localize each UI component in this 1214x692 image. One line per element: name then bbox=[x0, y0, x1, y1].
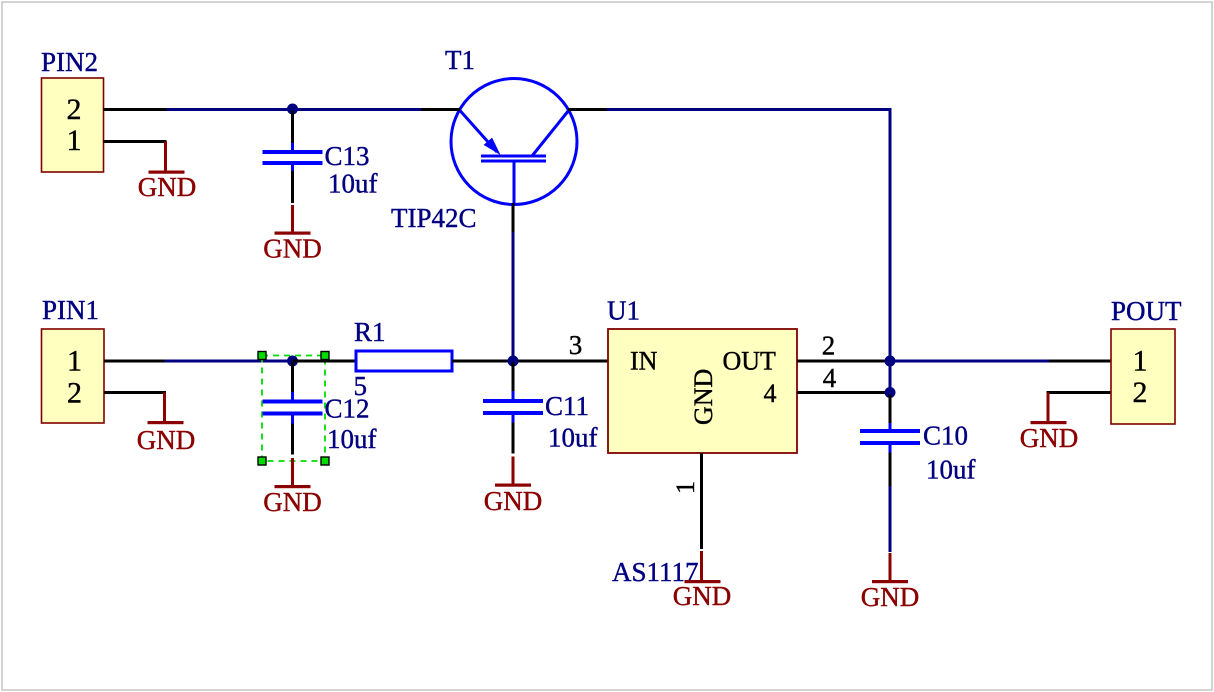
svg-text:2: 2 bbox=[67, 377, 82, 410]
connector POUT bbox=[1111, 296, 1182, 424]
svg-text:GND: GND bbox=[689, 369, 718, 425]
svg-text:2: 2 bbox=[67, 93, 82, 126]
svg-text:4: 4 bbox=[823, 363, 837, 393]
wire: C10 bottom pin black bbox=[889, 453, 892, 487]
svg-text:GND: GND bbox=[263, 487, 322, 517]
svg-text:PIN1: PIN1 bbox=[42, 295, 99, 325]
svg-text:C11: C11 bbox=[545, 391, 589, 421]
svg-text:T1: T1 bbox=[445, 45, 475, 75]
svg-text:PIN2: PIN2 bbox=[41, 47, 98, 77]
svg-text:10uf: 10uf bbox=[328, 169, 378, 199]
svg-text:4: 4 bbox=[764, 379, 777, 408]
IC U1 AS1117 bbox=[607, 296, 797, 588]
wire: C13 top pin black bbox=[291, 111, 294, 144]
ground: C13 GND bbox=[263, 205, 322, 264]
wire: PIN1 to C12 junction navy bbox=[164, 360, 293, 363]
wire: top rail navy T1 to right corner bbox=[606, 108, 892, 111]
ground: C10 GND bbox=[861, 553, 920, 612]
svg-text:IN: IN bbox=[630, 347, 658, 376]
ground: C11 GND bbox=[484, 457, 543, 517]
wire: T1 right stub black bbox=[568, 108, 607, 111]
node: junction C11 bbox=[508, 356, 519, 367]
wire: R1 to U1 black bbox=[452, 360, 608, 363]
transistor Q T1 bbox=[391, 45, 577, 233]
svg-text:2: 2 bbox=[1133, 376, 1148, 409]
wire: right vertical navy between junctions bbox=[889, 361, 892, 393]
wire: U1 pin4 stub black bbox=[797, 391, 890, 394]
wire: C13 bottom pin black bbox=[291, 171, 294, 203]
wire: T1 collector to C11 junction navy bbox=[512, 231, 515, 360]
ground: U1 GND bbox=[673, 551, 732, 611]
wire: PIN2 pin1 stub black bbox=[104, 140, 167, 143]
wire: PIN2 pin2 stub black bbox=[104, 108, 167, 111]
wire: C11 top pin black bbox=[512, 362, 515, 392]
capacitor C12 bbox=[263, 392, 377, 454]
node: junction right rail pin4 bbox=[885, 387, 896, 398]
selection box around C12 bbox=[258, 352, 329, 466]
connector PIN2 bbox=[41, 47, 104, 172]
capacitor C11 bbox=[483, 391, 598, 453]
connector PIN1 bbox=[42, 295, 105, 423]
svg-text:GND: GND bbox=[138, 172, 197, 202]
wire: top rail navy PIN2 to T1 bbox=[166, 108, 422, 111]
svg-text:10uf: 10uf bbox=[327, 424, 377, 454]
wire: T1 collector stub black bbox=[512, 203, 515, 232]
svg-text:GND: GND bbox=[263, 234, 322, 264]
wire: POUT pin1 stub black bbox=[1049, 360, 1111, 363]
pin number 3 (U1 IN) bbox=[569, 330, 583, 360]
wire: C10 to GND navy bbox=[889, 486, 892, 552]
wire: C10 top pin black bbox=[889, 395, 892, 424]
svg-text:C10: C10 bbox=[923, 421, 968, 451]
wire: C12 bottom pin black bbox=[291, 424, 294, 455]
svg-text:U1: U1 bbox=[607, 296, 640, 326]
svg-text:10uf: 10uf bbox=[926, 455, 976, 485]
wire: C12 top pin black bbox=[291, 362, 294, 393]
wire: PIN1 pin2 stub black bbox=[104, 391, 166, 394]
ground: POUT pin2 GND bbox=[1020, 393, 1079, 454]
wire: right vertical navy bbox=[889, 108, 892, 361]
svg-text:TIP42C: TIP42C bbox=[391, 203, 477, 233]
node: junction top rail / C13 bbox=[287, 104, 298, 115]
wire: PIN1 pin1 stub black bbox=[104, 360, 165, 363]
wire: C12 junction to R1 black bbox=[293, 360, 357, 363]
wire: POUT pin2 stub black bbox=[1047, 391, 1112, 394]
ground: PIN2 pin1 GND bbox=[138, 142, 197, 203]
svg-text:1: 1 bbox=[1133, 345, 1148, 378]
capacitor C13 bbox=[263, 141, 378, 199]
svg-text:R1: R1 bbox=[354, 317, 386, 347]
svg-text:GND: GND bbox=[673, 581, 732, 611]
svg-text:5: 5 bbox=[354, 371, 368, 401]
pin number 4 (U1) bbox=[823, 363, 837, 393]
svg-text:GND: GND bbox=[137, 425, 196, 455]
wire: U1 pin1 GND stub black bbox=[700, 453, 703, 549]
svg-text:POUT: POUT bbox=[1111, 296, 1182, 326]
svg-text:2: 2 bbox=[822, 331, 836, 361]
node: junction PIN1 rail / C12 bbox=[287, 356, 298, 367]
node: junction right rail pin2 bbox=[885, 356, 896, 367]
ground: C12 GND bbox=[263, 458, 322, 517]
ground: PIN1 pin2 GND bbox=[137, 393, 196, 456]
svg-text:OUT: OUT bbox=[723, 347, 777, 376]
svg-text:1: 1 bbox=[671, 481, 700, 494]
wire: T1 emitter stub black bbox=[421, 108, 460, 111]
pin number 1 (U1 GND) rotated bbox=[671, 481, 700, 494]
wire: U1 pin2 stub black bbox=[797, 360, 890, 363]
svg-text:C13: C13 bbox=[325, 141, 370, 171]
svg-text:GND: GND bbox=[484, 486, 543, 516]
svg-text:GND: GND bbox=[861, 582, 920, 612]
wire: C11 bottom pin black bbox=[512, 423, 515, 454]
svg-text:1: 1 bbox=[67, 124, 82, 157]
svg-text:GND: GND bbox=[1020, 423, 1079, 453]
pin number 2 (U1 OUT) bbox=[822, 331, 836, 361]
svg-text:10uf: 10uf bbox=[548, 423, 598, 453]
capacitor C10 bbox=[860, 421, 976, 485]
svg-text:1: 1 bbox=[67, 345, 82, 378]
svg-text:3: 3 bbox=[569, 330, 583, 360]
wire: junction to POUT navy bbox=[890, 360, 1049, 363]
resistor R1 bbox=[354, 317, 453, 401]
